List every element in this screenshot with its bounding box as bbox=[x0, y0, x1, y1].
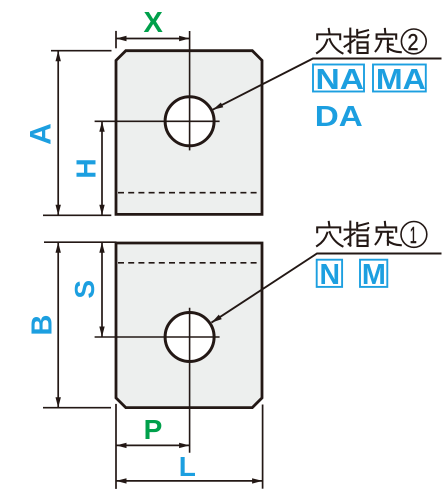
svg-text:P: P bbox=[144, 414, 163, 445]
svg-text:N: N bbox=[319, 259, 340, 291]
svg-text:H: H bbox=[71, 158, 102, 178]
svg-text:DA: DA bbox=[315, 101, 363, 133]
svg-text:NA: NA bbox=[316, 64, 365, 96]
svg-text:S: S bbox=[69, 280, 100, 299]
svg-text:MA: MA bbox=[376, 64, 426, 96]
svg-text:B: B bbox=[26, 315, 58, 336]
svg-text:M: M bbox=[362, 259, 386, 291]
svg-text:2: 2 bbox=[408, 29, 419, 55]
svg-text:X: X bbox=[144, 7, 164, 39]
svg-text:L: L bbox=[179, 451, 196, 482]
svg-text:A: A bbox=[25, 123, 58, 145]
svg-text:1: 1 bbox=[410, 222, 417, 248]
